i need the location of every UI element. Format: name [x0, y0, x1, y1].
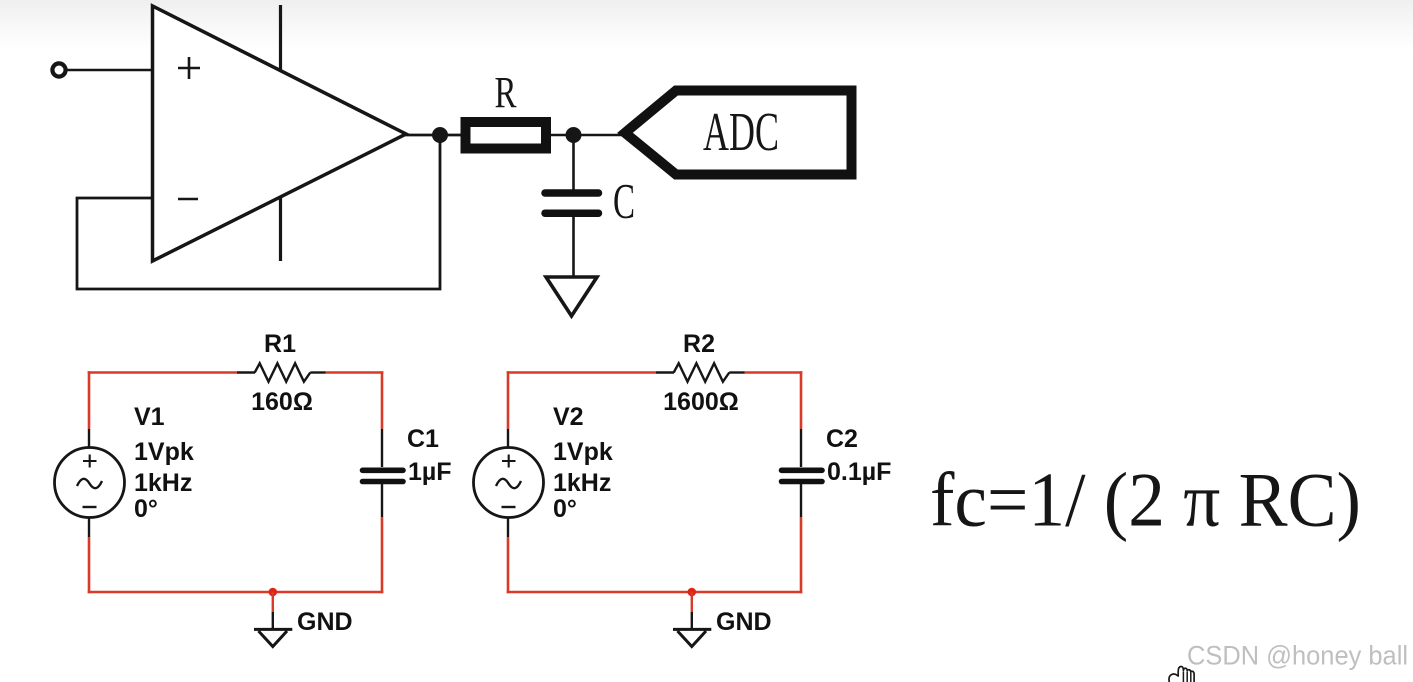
ADC tag outline — [625, 91, 852, 175]
wire right upper red — [381, 371, 384, 429]
op-amp U1 triangle — [153, 6, 407, 261]
wire right upper black stub — [381, 429, 383, 467]
svg-text:V2: V2 — [553, 403, 584, 431]
V1 plus sign — [83, 455, 97, 468]
wire right upper black stub (2) — [800, 429, 802, 467]
output wire — [402, 134, 464, 137]
junction node dot 2 — [566, 127, 582, 143]
wire node2 down to capacitor C — [572, 135, 575, 190]
V1 sine symbol — [77, 479, 102, 488]
wire right lower red — [381, 517, 384, 593]
wire C to ground — [572, 217, 575, 277]
GND1 black stub — [272, 612, 274, 629]
svg-text:V1: V1 — [134, 403, 165, 431]
wire left upper black stub — [88, 429, 90, 448]
svg-text:0.1µF: 0.1µF — [827, 458, 891, 486]
GND2 red stub — [691, 592, 693, 612]
svg-text:1600Ω: 1600Ω — [663, 388, 739, 416]
V2 minus sign — [502, 506, 516, 508]
wire left upper red — [88, 371, 91, 429]
op-amp top power pin — [279, 5, 282, 70]
GND1 red stub — [272, 592, 274, 612]
junction dot GND1 (red) — [269, 588, 278, 597]
wire right lower black stub — [381, 484, 383, 517]
ground (top circuit) — [546, 277, 597, 316]
resistor R1 zigzag — [255, 363, 311, 381]
wire left upper black stub (2) — [507, 429, 509, 448]
resistor R2 left lead — [656, 371, 674, 373]
svg-text:R: R — [495, 68, 517, 117]
wire right lower red (2) — [800, 517, 803, 593]
ground symbol GND2 — [673, 629, 711, 646]
svg-text:1µF: 1µF — [408, 458, 452, 486]
svg-text:1kHz: 1kHz — [134, 469, 192, 497]
wire bottom red — [88, 591, 384, 594]
input terminal circle — [52, 63, 65, 76]
wire top-left red (V1 to R1) — [88, 371, 237, 374]
source V2 circle — [474, 448, 544, 518]
resistor R body — [466, 122, 547, 149]
wire left lower black stub — [88, 518, 90, 538]
wire input to op-amp — [66, 69, 153, 72]
wire left upper red (2) — [507, 371, 510, 429]
svg-text:ADC: ADC — [703, 101, 779, 162]
resistor R1 right lead — [310, 371, 325, 373]
wire left lower red — [88, 537, 91, 593]
svg-text:R1: R1 — [264, 330, 296, 358]
ground symbol GND1 — [254, 629, 292, 646]
svg-text:fc=1/ (2 π RC): fc=1/ (2 π RC) — [930, 457, 1361, 543]
V1 minus sign — [83, 506, 97, 508]
svg-text:1Vpk: 1Vpk — [134, 438, 194, 466]
hand cursor icon — [1169, 666, 1194, 682]
svg-text:CSDN @honey ball: CSDN @honey ball — [1187, 641, 1408, 671]
svg-text:160Ω: 160Ω — [251, 388, 313, 416]
wire right upper red (2) — [800, 371, 803, 429]
capacitor C top plate — [545, 189, 599, 197]
V2 plus sign — [502, 455, 516, 468]
svg-text:0°: 0° — [134, 495, 158, 523]
wire top-right red (R1 to C1) — [326, 371, 384, 374]
wire top-left red (V2 to R2) — [507, 371, 656, 374]
svg-text:R2: R2 — [683, 330, 715, 358]
op-amp minus input symbol — [178, 198, 198, 201]
svg-text:GND: GND — [716, 608, 772, 636]
svg-text:C2: C2 — [826, 425, 858, 453]
svg-text:1Vpk: 1Vpk — [553, 438, 613, 466]
op-amp plus input symbol — [178, 57, 200, 79]
op-amp bottom power pin — [279, 197, 282, 261]
svg-text:GND: GND — [297, 608, 353, 636]
wire top-right red (R2 to C2) — [745, 371, 803, 374]
capacitor C1 bottom plate — [363, 479, 404, 485]
wire R to node 2 — [550, 134, 630, 137]
svg-text:0°: 0° — [553, 495, 577, 523]
junction dot GND2 (red) — [688, 588, 697, 597]
svg-text:C1: C1 — [407, 425, 439, 453]
wire left lower red (2) — [507, 537, 510, 593]
junction node dot 1 — [432, 127, 448, 143]
capacitor C bottom plate — [545, 209, 599, 217]
wire right lower black stub (2) — [800, 484, 802, 517]
wire bottom red (2) — [507, 591, 803, 594]
resistor R2 zigzag — [674, 363, 730, 381]
source V1 circle — [55, 448, 125, 518]
wire left lower black stub (2) — [507, 518, 509, 538]
capacitor C2 top plate — [782, 467, 823, 473]
V2 sine symbol — [496, 479, 521, 488]
resistor R1 left lead — [237, 371, 255, 373]
resistor R2 right lead — [729, 371, 744, 373]
capacitor C1 top plate — [363, 467, 404, 473]
feedback wire — [77, 135, 440, 289]
svg-text:1kHz: 1kHz — [553, 469, 611, 497]
svg-text:C: C — [613, 173, 635, 229]
GND2 black stub — [691, 612, 693, 629]
capacitor C2 bottom plate — [782, 479, 823, 485]
